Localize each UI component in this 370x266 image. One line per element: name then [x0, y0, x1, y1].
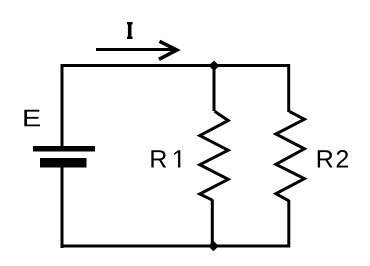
node A: top junction dot (diamond)	[209, 61, 220, 72]
current arrow I head	[159, 41, 177, 59]
wire: left vertical upper (battery + to top wire)	[61, 64, 64, 147]
wire: right vertical upper (top wire to R2)	[287, 64, 290, 112]
wire: R1 bottom stem	[211, 200, 214, 247]
node B: bottom junction dot (diamond)	[208, 241, 219, 252]
label E	[24, 110, 40, 127]
wire: top horizontal from battery to R2 corner	[61, 64, 291, 67]
wire: R1 top stem	[213, 65, 216, 111]
battery E: bottom plate (negative)	[40, 158, 87, 168]
wire: bottom horizontal	[61, 245, 291, 248]
battery E: top plate (positive)	[33, 146, 95, 152]
current arrow I shaft	[96, 48, 176, 51]
wire: right vertical lower (R2 to bottom wire)	[287, 200, 290, 248]
label R1	[151, 150, 166, 167]
label R2	[318, 150, 333, 167]
wire: left vertical lower (battery - to bottom wire)	[61, 167, 64, 248]
resistor R1 zigzag body	[200, 111, 228, 200]
label I	[127, 22, 133, 39]
resistor R2 zigzag body	[276, 111, 305, 200]
